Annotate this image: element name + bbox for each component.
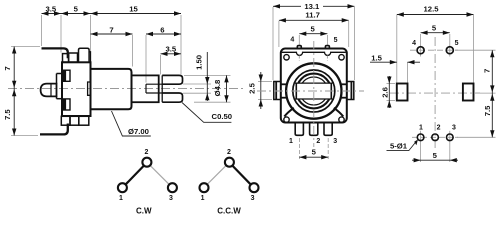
top step rects bbox=[63, 54, 69, 63]
pin hidden lines bbox=[298, 56, 300, 62]
ring 2 bbox=[293, 70, 335, 112]
dim 5 top holes bbox=[421, 31, 428, 35]
dim 5 bottom bbox=[414, 158, 421, 162]
left slot bbox=[397, 84, 408, 101]
pin 5 stub bbox=[325, 46, 329, 49]
tab link lines right bbox=[341, 83, 347, 85]
terminal 2 bbox=[310, 123, 318, 136]
hole 2 bbox=[432, 134, 439, 141]
dim 3.5 (shaft end) bbox=[161, 52, 168, 56]
threaded bushing cylinder dia7 bbox=[91, 69, 132, 109]
right side tab bbox=[347, 82, 354, 100]
svg-text:2: 2 bbox=[437, 125, 441, 132]
boss step on left face bbox=[57, 73, 63, 75]
tab link lines left bbox=[281, 83, 287, 85]
svg-text:7: 7 bbox=[109, 25, 113, 34]
ring 3 thick bbox=[296, 74, 331, 109]
dim texts left view bbox=[3, 5, 232, 137]
svg-text:2: 2 bbox=[227, 149, 231, 156]
svg-text:5: 5 bbox=[310, 25, 315, 34]
svg-text:C0.50: C0.50 bbox=[212, 112, 233, 121]
svg-text:C.C.W: C.C.W bbox=[217, 207, 241, 216]
dim 2.5 left tab bbox=[258, 82, 272, 100]
dim 5 top pins bbox=[299, 32, 306, 36]
svg-text:3: 3 bbox=[452, 125, 456, 132]
svg-text:15: 15 bbox=[129, 5, 138, 14]
C.C.W contact line 1-2 open bbox=[207, 165, 226, 184]
hole 5 bbox=[446, 47, 453, 54]
svg-text:3.5: 3.5 bbox=[45, 5, 56, 14]
svg-text:1: 1 bbox=[289, 138, 293, 145]
svg-text:5: 5 bbox=[312, 148, 317, 157]
top notch slot bbox=[64, 70, 71, 81]
node 2 CW bbox=[142, 158, 151, 167]
rivet bottom-right bbox=[339, 117, 344, 122]
extension lines bbox=[273, 7, 355, 159]
svg-text:2.5: 2.5 bbox=[247, 82, 256, 93]
C.W contact line 1-2 closed bbox=[125, 166, 143, 185]
dim 1.5 bbox=[390, 60, 397, 64]
shaft flat band bbox=[295, 84, 333, 99]
pin 4 stub bbox=[297, 46, 301, 49]
bottom step rects bbox=[61, 116, 70, 125]
svg-text:5: 5 bbox=[455, 40, 459, 47]
svg-text:7: 7 bbox=[3, 66, 12, 70]
node 3 CCW bbox=[250, 183, 259, 192]
svg-text:5: 5 bbox=[433, 151, 438, 160]
svg-text:12.5: 12.5 bbox=[424, 5, 440, 14]
svg-text:7: 7 bbox=[483, 69, 492, 73]
dim 7 / 7.5 left vertical bbox=[12, 47, 16, 54]
svg-text:5-Ø1: 5-Ø1 bbox=[390, 142, 408, 151]
centerline vertical middle view bbox=[313, 41, 315, 147]
dim 2.6 bbox=[387, 77, 391, 84]
node 1 CW bbox=[118, 183, 127, 192]
centerline left view bbox=[8, 88, 243, 90]
dim 5 bottom pins bbox=[299, 155, 306, 159]
dim 3.5 / 5 / 15 top row bbox=[14, 14, 226, 136]
C.W contact line 2-3 open bbox=[150, 165, 169, 184]
shaft slot bbox=[146, 83, 163, 85]
svg-text:1: 1 bbox=[419, 125, 423, 132]
svg-text:6: 6 bbox=[160, 25, 164, 34]
body square bbox=[281, 49, 347, 123]
dim dia 4.8 bbox=[224, 75, 228, 82]
dim 12.5 bbox=[397, 12, 404, 16]
svg-text:1.5: 1.5 bbox=[371, 54, 382, 63]
shaft slotted end top finger bbox=[162, 75, 182, 84]
shaft groove bbox=[158, 75, 160, 102]
rivet top-left bbox=[284, 55, 289, 60]
centerline horizontal middle view bbox=[257, 90, 364, 92]
bushing rear step bbox=[89, 52, 91, 63]
svg-text:C.W: C.W bbox=[136, 207, 152, 216]
terminal 1 bbox=[295, 123, 303, 136]
dim 7 (body to bushing) bbox=[91, 32, 98, 36]
cover lip line bbox=[282, 52, 346, 55]
dim 7 right bbox=[490, 50, 494, 57]
dim 13.1 bbox=[261, 6, 355, 157]
svg-text:3: 3 bbox=[169, 195, 173, 202]
svg-text:2.6: 2.6 bbox=[381, 87, 390, 98]
hole 1 bbox=[417, 134, 424, 141]
ring 4 bbox=[300, 77, 328, 105]
bottom flares bbox=[284, 108, 294, 117]
svg-text:3.5: 3.5 bbox=[165, 44, 176, 53]
shaft slotted end bottom finger bbox=[162, 93, 182, 102]
svg-text:3: 3 bbox=[251, 195, 255, 202]
hole 3 bbox=[447, 134, 454, 141]
outer boss circle bbox=[286, 63, 341, 118]
main body block bbox=[62, 62, 91, 116]
svg-text:2: 2 bbox=[316, 138, 320, 145]
svg-text:Ø4.8: Ø4.8 bbox=[213, 79, 222, 96]
svg-text:5: 5 bbox=[334, 37, 338, 44]
dim 11.7 bbox=[279, 18, 286, 22]
dim texts right view bbox=[371, 5, 492, 160]
bottom mounting tab bbox=[40, 124, 68, 135]
node 2 CCW bbox=[225, 158, 234, 167]
svg-text:1: 1 bbox=[119, 195, 123, 202]
centerlines bbox=[434, 37, 436, 150]
svg-text:2: 2 bbox=[144, 149, 148, 156]
body geometry left view bbox=[40, 48, 183, 134]
leader dia7.00 bbox=[112, 111, 151, 136]
svg-text:5: 5 bbox=[432, 23, 437, 32]
rivet top-right bbox=[339, 55, 344, 60]
left side tab bbox=[274, 82, 281, 100]
svg-text:7.5: 7.5 bbox=[483, 105, 492, 116]
leader arrowhead 5-dia1 bbox=[414, 140, 418, 146]
shaft section A bbox=[132, 75, 159, 102]
extension lines bbox=[387, 15, 496, 162]
dim 7.5 right bbox=[490, 94, 494, 101]
top mounting tab bbox=[42, 48, 68, 58]
dim texts middle view bbox=[247, 2, 337, 157]
leader C0.50 bbox=[182, 103, 231, 123]
dim 6 (shaft slot) bbox=[146, 32, 153, 36]
dim 2.5 arrows bbox=[259, 75, 263, 82]
push plunger dome bbox=[41, 84, 57, 97]
node 1 CCW bbox=[200, 183, 209, 192]
svg-text:5: 5 bbox=[74, 5, 79, 14]
svg-text:1.50: 1.50 bbox=[195, 55, 204, 70]
internal hub step bbox=[88, 82, 91, 95]
svg-text:7.5: 7.5 bbox=[3, 109, 12, 120]
svg-text:4: 4 bbox=[412, 40, 416, 47]
right slot bbox=[463, 84, 474, 101]
dim 1.50 bbox=[205, 77, 209, 84]
terminal 3 bbox=[324, 123, 332, 136]
node 3 CW bbox=[168, 183, 177, 192]
rivet bottom-left bbox=[284, 117, 289, 122]
svg-text:4: 4 bbox=[290, 37, 294, 44]
bottom notch slot bbox=[64, 99, 71, 110]
hole 4 bbox=[417, 47, 424, 54]
extension lines bbox=[11, 15, 231, 136]
svg-text:3: 3 bbox=[333, 138, 337, 145]
svg-text:Ø7.00: Ø7.00 bbox=[128, 127, 149, 136]
svg-text:11.7: 11.7 bbox=[305, 10, 320, 19]
C.C.W contact line 2-3 closed bbox=[232, 166, 251, 185]
svg-text:1: 1 bbox=[201, 195, 205, 202]
